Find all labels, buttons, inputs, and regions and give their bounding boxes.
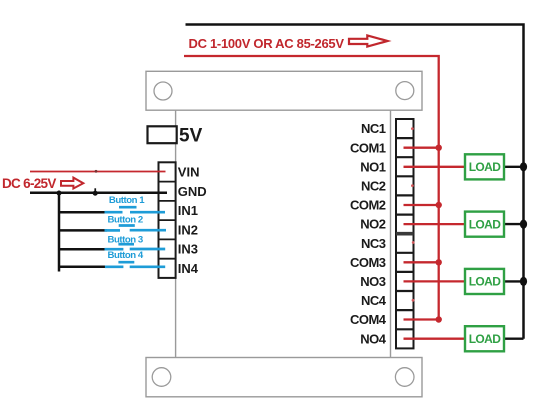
svg-text:NO2: NO2 bbox=[360, 217, 386, 232]
wire: NO4 to LOAD4 bbox=[404, 338, 466, 340]
junction: black bus at LOAD3 bbox=[520, 277, 527, 286]
wire: DC supply top black line bbox=[186, 25, 524, 339]
board top-left mounting hole bbox=[154, 82, 172, 100]
wire: COM3 stub bbox=[404, 261, 439, 263]
board bottom mounting bar bbox=[146, 358, 422, 397]
junction: red bus at COM4 bbox=[436, 316, 442, 322]
svg-text:GND: GND bbox=[178, 184, 207, 199]
svg-text:NC3: NC3 bbox=[361, 236, 386, 251]
5V pad box bbox=[148, 126, 177, 143]
svg-text:IN3: IN3 bbox=[178, 242, 198, 257]
mark: NC4 pin dot bbox=[412, 299, 415, 302]
wire: AC/DC red supply line to COM bus bbox=[184, 56, 439, 320]
wire: NO2 to LOAD2 bbox=[404, 223, 466, 225]
connector: input header (6 cells) bbox=[159, 162, 176, 278]
svg-text:5V: 5V bbox=[179, 125, 203, 146]
board bottom-left mounting hole bbox=[152, 368, 171, 387]
wire: COM1 stub bbox=[404, 147, 439, 149]
svg-text:LOAD: LOAD bbox=[469, 275, 502, 289]
mark: NC1 pin dot bbox=[411, 127, 414, 130]
wire: COM2 stub bbox=[404, 204, 439, 206]
board bottom-right mounting hole bbox=[395, 368, 414, 387]
wire: LOAD1 to black bus bbox=[504, 166, 524, 168]
svg-text:DC 6-25V: DC 6-25V bbox=[2, 176, 56, 191]
svg-text:IN2: IN2 bbox=[178, 222, 198, 237]
LOAD 2 bbox=[465, 212, 504, 237]
arrow: top supply arrow bbox=[349, 35, 388, 46]
svg-text:Button 1: Button 1 bbox=[109, 195, 145, 206]
button Button 4 bbox=[105, 250, 165, 267]
junction: black bus at LOAD1 bbox=[520, 162, 527, 171]
svg-text:LOAD: LOAD bbox=[469, 160, 502, 174]
svg-text:NC4: NC4 bbox=[361, 293, 387, 308]
svg-text:NO3: NO3 bbox=[360, 274, 386, 289]
svg-text:COM3: COM3 bbox=[350, 255, 386, 270]
mark: NC2 pin dot bbox=[411, 184, 414, 187]
svg-text:LOAD: LOAD bbox=[469, 332, 502, 346]
wire: VIN red feed bbox=[30, 171, 166, 173]
junction: red bus at COM1 bbox=[436, 145, 442, 151]
wire: LOAD2 to black bus bbox=[504, 223, 524, 225]
wire: LOAD4 to black bus bbox=[504, 338, 524, 340]
wire: LOAD3 to black bus bbox=[504, 280, 524, 282]
mark: dot on VIN wire bbox=[95, 170, 98, 173]
svg-text:NO4: NO4 bbox=[360, 331, 387, 346]
svg-text:IN4: IN4 bbox=[178, 261, 199, 276]
mark: NC3 pin dot bbox=[412, 241, 415, 244]
svg-text:Button 2: Button 2 bbox=[108, 214, 143, 225]
connector: relay output header (12 cells) bbox=[396, 119, 414, 348]
svg-text:NC1: NC1 bbox=[361, 121, 386, 136]
wire: COM4 stub bbox=[404, 318, 439, 320]
wire: button3 lead bbox=[59, 248, 105, 251]
button Button 1 bbox=[105, 195, 166, 212]
LOAD 3 bbox=[465, 269, 504, 294]
wire: button common bus bbox=[58, 193, 61, 272]
junction: black bus at LOAD2 bbox=[520, 220, 527, 229]
svg-text:NO1: NO1 bbox=[360, 159, 386, 174]
svg-text:COM2: COM2 bbox=[350, 198, 386, 213]
wire: button1 lead bbox=[59, 211, 107, 214]
junction: red bus at COM3 bbox=[436, 259, 442, 265]
button Button 2 bbox=[105, 214, 167, 230]
LOAD 1 bbox=[465, 154, 504, 179]
svg-text:COM4: COM4 bbox=[350, 312, 387, 327]
svg-text:VIN: VIN bbox=[178, 165, 200, 180]
svg-text:DC 1-100V OR AC 85-265V: DC 1-100V OR AC 85-265V bbox=[189, 36, 345, 51]
board right edge bbox=[390, 110, 392, 357]
board top mounting bar bbox=[146, 71, 422, 110]
junction: red bus at COM2 bbox=[436, 202, 442, 208]
wire: GND black feed bbox=[30, 191, 167, 194]
svg-text:LOAD: LOAD bbox=[469, 217, 502, 231]
arrow: DC 6-25V arrow bbox=[61, 178, 83, 189]
LOAD 4 bbox=[465, 326, 504, 351]
wire: NO3 to LOAD3 bbox=[404, 280, 466, 282]
wire: button2 lead bbox=[59, 229, 107, 232]
svg-text:COM1: COM1 bbox=[350, 140, 386, 155]
wire: NO1 to LOAD1 bbox=[404, 166, 466, 168]
wire: button4 lead bbox=[59, 266, 105, 269]
board left edge bbox=[175, 110, 177, 357]
svg-text:NC2: NC2 bbox=[361, 179, 386, 194]
junction: dot on GND wire bbox=[93, 191, 98, 196]
junction: GND at button bus bbox=[57, 191, 62, 196]
button Button 3 bbox=[105, 234, 166, 249]
svg-text:Button 4: Button 4 bbox=[108, 250, 144, 261]
svg-text:IN1: IN1 bbox=[178, 203, 198, 218]
board top-right mounting hole bbox=[396, 82, 414, 100]
